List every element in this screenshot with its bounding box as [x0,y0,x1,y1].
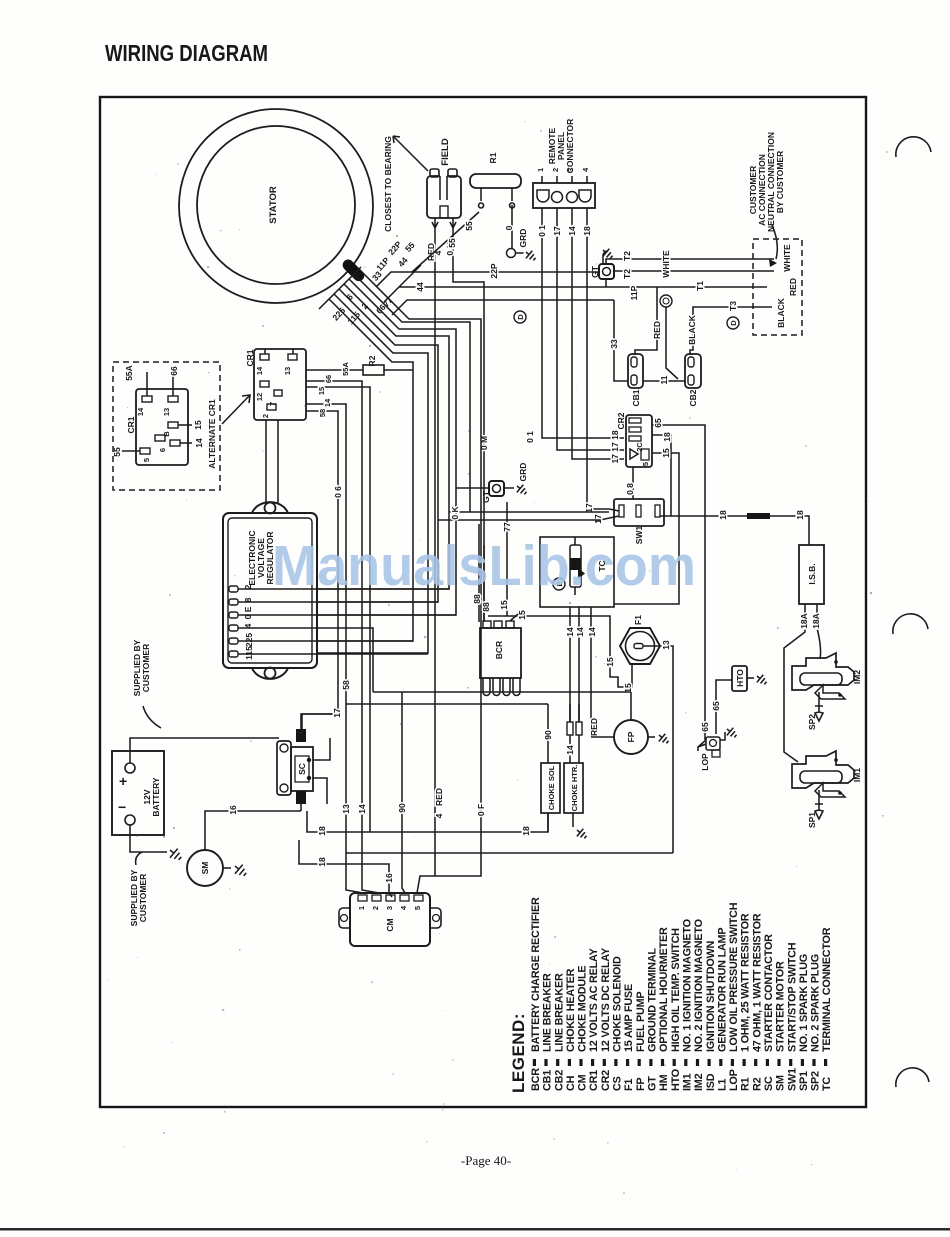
alternate CR1 dashed box [113,362,220,490]
svg-text:18: 18 [521,826,531,836]
svg-text:14: 14 [136,407,145,416]
battery box [112,751,164,835]
regulator pin 2 [229,586,238,592]
svg-text:HTO: HTO [735,669,745,687]
alternate CR1 pin B [168,422,178,428]
svg-text:0 E: 0 E [243,606,253,619]
svg-text:F1: F1 [623,1079,635,1091]
GRD terminal circle [507,249,516,258]
svg-text:65: 65 [653,418,663,428]
TC inner connector [570,545,581,587]
svg-text:18: 18 [317,857,327,867]
svg-text:CH: CH [565,1075,577,1091]
svg-text:TERMINAL CONNECTOR: TERMINAL CONNECTOR [821,927,833,1052]
stator fan wire 3 [317,279,456,615]
CR1 bottom wires [266,420,278,511]
svg-text:14: 14 [357,804,367,814]
svg-text:WIRING DIAGRAM: WIRING DIAGRAM [105,40,268,66]
stator fan wire 7 [317,299,413,641]
svg-text:SM: SM [775,1075,787,1091]
svg-text:R2: R2 [367,355,377,366]
HTO wire 65 to LOP [716,680,732,734]
svg-text:-Page 40-: -Page 40- [461,1153,511,1168]
svg-text:CB1: CB1 [542,1070,554,1091]
CR2 wire 65 right [652,425,705,740]
stator cable blob [340,257,366,283]
svg-text:1: 1 [536,168,545,172]
svg-text:14: 14 [575,627,585,637]
closest to bearing arrow [393,136,428,171]
GRD ground symbol [523,248,538,263]
wire 17 horizontal lower [438,519,600,521]
FP left wire [591,736,614,738]
svg-text:I.S.B.: I.S.B. [807,563,817,584]
svg-text:0 K: 0 K [450,506,460,520]
regulator pin 225 [229,638,238,644]
CR1 wire 58 [302,411,338,733]
svg-text:0 1: 0 1 [525,431,535,443]
CR2 wire 18 right [652,435,671,516]
svg-text:FUEL PUMP: FUEL PUMP [635,992,647,1052]
stator inner ring [197,126,355,284]
svg-text:BATTERY CHARGE RECTIFIER: BATTERY CHARGE RECTIFIER [530,897,542,1052]
svg-text:B: B [162,431,171,437]
svg-text:17: 17 [332,708,342,718]
node D circle right [727,317,739,329]
svg-text:15: 15 [661,448,671,458]
svg-text:CHOKE HEATER: CHOKE HEATER [565,968,577,1052]
svg-text:CM: CM [577,1074,589,1091]
wire 18 horizontal lower [299,840,392,897]
svg-text:R1: R1 [740,1077,752,1091]
CR1 wire 55A with resistor R2 [306,369,413,371]
svg-text:F1: F1 [633,615,643,625]
svg-text:90: 90 [543,730,553,740]
svg-text:3: 3 [566,168,575,172]
svg-text:13: 13 [283,367,292,375]
wire 15 to fuse [488,616,632,687]
svg-text:LOP: LOP [700,753,710,771]
stator outer ring [179,109,373,303]
wire BLACK down to CB2 [690,307,700,355]
svg-text:CHOKE SOL: CHOKE SOL [547,765,556,810]
svg-text:RED: RED [788,278,798,296]
SC bottom wire [300,804,302,811]
svg-text:NO. 2 SPARK PLUG: NO. 2 SPARK PLUG [810,954,822,1052]
svg-text:225: 225 [244,633,254,647]
svg-text:OPTIONAL HOURMETER: OPTIONAL HOURMETER [658,927,670,1052]
svg-text:START/STOP SWITCH: START/STOP SWITCH [786,942,798,1052]
svg-text:13: 13 [661,640,671,650]
svg-text:SC: SC [297,763,307,775]
svg-text:65: 65 [711,701,721,711]
remote connector slot 3 [567,192,578,203]
svg-text:58: 58 [318,409,327,417]
svg-text:BATTERY: BATTERY [151,777,161,817]
svg-text:2: 2 [551,168,560,172]
svg-text:SP1: SP1 [798,1071,810,1091]
node D circle left [514,311,526,323]
wire 18 horizontal upper [307,811,548,832]
CR1 wire 14 [306,404,363,893]
svg-text:HIGH OIL TEMP. SWITCH: HIGH OIL TEMP. SWITCH [670,928,682,1052]
svg-text:33: 33 [609,339,619,349]
svg-text:12 VOLTS AC RELAY: 12 VOLTS AC RELAY [588,947,600,1052]
battery negative to ground [130,825,167,852]
svg-text:BLACK: BLACK [687,314,697,345]
LOP ground [720,732,725,740]
field pin arrows [432,218,456,228]
svg-text:16: 16 [228,805,238,815]
CR2 bottom wire [632,467,634,499]
svg-text:11P: 11P [629,285,639,300]
svg-text:STARTER CONTACTOR: STARTER CONTACTOR [763,934,775,1052]
svg-text:GROUND TERMINAL: GROUND TERMINAL [647,948,659,1052]
ignition shutdown ISB box [799,545,824,604]
bottom scan edge line [0,1228,950,1231]
svg-text:18: 18 [582,226,592,236]
svg-text:TC: TC [821,1077,833,1091]
svg-text:115: 115 [244,646,254,660]
svg-text:HTO: HTO [670,1069,682,1091]
svg-text:0 6: 0 6 [333,486,343,498]
svg-text:FP: FP [626,731,636,742]
CR1 pin 2 [267,404,276,410]
svg-text:GRD: GRD [518,463,528,482]
remote connector slot 4 [579,190,591,202]
customer dashed box [753,239,802,335]
svg-text:CR1: CR1 [588,1070,600,1091]
svg-text:BY CUSTOMER: BY CUSTOMER [775,151,785,214]
svg-text:4: 4 [399,905,408,910]
svg-text:55A: 55A [341,362,350,376]
svg-text:22P: 22P [386,239,404,257]
alternate CR1 pin 5 [140,448,150,454]
svg-text:1: 1 [357,906,366,910]
svg-text:CB2: CB2 [553,1070,565,1091]
svg-text:CB2: CB2 [688,389,698,406]
svg-text:44: 44 [396,255,410,269]
SC right stubs [313,738,330,804]
choke heater splice feeds [570,704,579,722]
svg-text:90: 90 [397,803,407,813]
binder hole arc top right [896,137,931,157]
svg-text:L1: L1 [716,1079,728,1091]
svg-text:66: 66 [169,366,179,376]
svg-text:NO. 1 IGNITION MAGNETO: NO. 1 IGNITION MAGNETO [682,919,694,1052]
CR2 pin bars [629,418,641,423]
battery charge rectifier BCR [480,621,521,696]
svg-text:GRD: GRD [518,229,528,248]
CR1 pin 7 [274,390,282,396]
svg-text:1 OHM, 25 WATT RESISTOR: 1 OHM, 25 WATT RESISTOR [740,913,752,1052]
svg-text:CR2: CR2 [616,412,626,429]
svg-text:CHOKE SOLENOID: CHOKE SOLENOID [612,956,624,1052]
svg-text:GT: GT [647,1076,659,1091]
alternate CR1 pin 55 stub [122,450,140,452]
low oil pressure switch LOP [698,737,720,757]
svg-text:8: 8 [243,597,253,602]
choke heater ground [572,813,574,827]
CR2 wire 15 right [614,453,679,604]
svg-text:LOW OIL PRESSURE SWITCH: LOW OIL PRESSURE SWITCH [728,902,740,1052]
svg-text:NO. 1 SPARK PLUG: NO. 1 SPARK PLUG [798,954,810,1052]
alternate CR1 pin 6 [155,435,165,441]
svg-text:14: 14 [567,226,577,236]
GT upper ground stub [603,251,608,287]
SW1 pin bars [619,505,624,517]
fan branch 33 11P [392,300,614,315]
svg-text:18: 18 [718,510,728,520]
circuit breaker CB1 [628,354,643,388]
svg-text:RED: RED [652,321,662,339]
svg-text:SP2: SP2 [810,1071,822,1091]
wire 90 to choke solenoid [547,704,549,763]
svg-text:0 1: 0 1 [537,225,547,237]
svg-text:GENERATOR RUN LAMP: GENERATOR RUN LAMP [716,928,728,1052]
CR1 wire 66 [306,381,379,893]
svg-text:ISD: ISD [705,1073,717,1091]
svg-text:13: 13 [341,804,351,814]
svg-text:5: 5 [641,462,650,466]
svg-text:17: 17 [552,226,562,236]
svg-text:SP1: SP1 [807,812,817,828]
ignition magneto IM1 [792,751,854,797]
svg-text:18: 18 [795,510,805,520]
svg-text:14: 14 [565,627,575,637]
svg-text:BCR: BCR [530,1068,542,1091]
svg-text:12: 12 [255,393,264,401]
CR1 pin 12 [260,381,269,387]
svg-text:14: 14 [194,438,204,448]
TC arrow [578,568,585,579]
svg-text:FP: FP [635,1078,647,1091]
svg-text:CHOKE HTR.: CHOKE HTR. [570,765,579,812]
svg-text:IM1: IM1 [682,1073,694,1091]
svg-text:IGNITION SHUTDOWN: IGNITION SHUTDOWN [705,940,717,1052]
svg-text:BCR: BCR [494,641,504,659]
terminal connector TC box [540,537,614,607]
svg-text:BLACK: BLACK [776,297,786,328]
svg-text:17 17 18: 17 17 18 [610,430,620,463]
svg-text:SC: SC [763,1076,775,1091]
svg-text:FIELD: FIELD [440,138,451,166]
svg-text:HM: HM [658,1074,670,1091]
wire T3 [700,306,772,308]
relay CR2 [626,415,652,467]
ignition magneto IM2 [792,653,854,699]
svg-text:15: 15 [499,600,509,610]
circuit breaker CB2 [685,354,701,388]
svg-text:115: 115 [345,309,362,326]
svg-text:SM: SM [200,862,210,875]
CR1 wire 15 [306,387,370,832]
svg-text:66: 66 [324,375,333,383]
svg-text:CLOSEST TO BEARING: CLOSEST TO BEARING [383,136,393,232]
regulator pin 115 [229,651,238,657]
binder hole arc bottom right [896,1068,929,1087]
ISB bottom wires 18A [784,604,821,762]
voltage regulator body [223,502,317,679]
node B drop wire to CB2 [666,307,678,379]
svg-text:NO. 2 IGNITION MAGNETO: NO. 2 IGNITION MAGNETO [693,919,705,1052]
svg-text:55: 55 [112,447,122,457]
svg-text:WHITE: WHITE [782,244,792,272]
bus wire lower [346,703,548,705]
svg-text:LINE BREAKER: LINE BREAKER [542,973,554,1052]
svg-text:15: 15 [317,387,326,395]
svg-text:STARTER MOTOR: STARTER MOTOR [775,961,787,1052]
svg-text:22P: 22P [489,263,499,278]
svg-text:5: 5 [142,458,151,462]
remote pin wires down [542,208,624,438]
svg-text:CM: CM [385,918,395,931]
BCR feeds [479,524,484,622]
field red wire [434,228,436,876]
starter motor SM [187,850,223,886]
choke heater CH [564,763,583,813]
resistor R1 [470,174,521,188]
svg-text:77: 77 [502,522,512,532]
svg-text:T1: T1 [695,281,705,291]
wire 17 SC top [301,714,338,733]
svg-text:11: 11 [659,375,669,384]
svg-text:14: 14 [565,745,575,755]
svg-text:88: 88 [481,602,491,612]
svg-text:LINE BREAKER: LINE BREAKER [553,973,565,1052]
wire T1 [657,286,767,288]
svg-text:RED: RED [434,788,444,806]
svg-text:SW1: SW1 [786,1068,798,1091]
svg-text:47 OHM, 1 WATT RESISTOR: 47 OHM, 1 WATT RESISTOR [751,913,763,1052]
CR1 pin 14 [260,354,269,360]
svg-text:17: 17 [593,514,603,524]
R1 right pin wire [510,188,515,248]
CR1 pin 13 [288,354,297,360]
svg-text:R1: R1 [488,152,498,163]
wire 90 to choke module [402,692,405,893]
svg-text:6: 6 [158,448,167,452]
choke sol bottom junction [547,813,549,832]
CR2 coil triangle [630,449,638,459]
svg-text:T2: T2 [622,251,632,261]
stator fan wire 1 [359,269,481,893]
svg-text:IM2: IM2 [852,670,862,684]
svg-text:IM2: IM2 [693,1073,705,1091]
svg-text:ALTERNATE CR1: ALTERNATE CR1 [207,399,217,469]
svg-text:15: 15 [517,610,527,620]
svg-text:14: 14 [255,366,264,375]
svg-text:65: 65 [700,722,710,732]
alternate CR1 relay body [136,389,188,465]
svg-text:15 AMP FUSE: 15 AMP FUSE [623,984,635,1052]
alternate CR1 arrow to CR1 [222,395,250,424]
svg-text:CHOKE MODULE: CHOKE MODULE [577,966,589,1052]
svg-text:SP2: SP2 [807,714,817,730]
svg-text:18A: 18A [799,613,809,629]
relay CR1 [254,349,306,420]
fuel pump FP [614,720,648,754]
wire 17 horizontal upper [449,511,609,513]
svg-text:CS: CS [612,1076,624,1091]
wire RED down to CB1 [635,287,657,355]
wire 33 drop to CB1 [614,300,628,381]
starter contactor SC [277,729,313,804]
spark plug SP2 [815,692,823,721]
svg-text:2: 2 [261,414,270,418]
svg-text:−: − [118,799,126,815]
BCR pin3 diagonal 15 [510,614,518,621]
wire T2 white pair to customer box [606,259,774,271]
svg-text:3: 3 [385,906,394,910]
svg-text:RED: RED [589,718,599,736]
fuse F1 [620,628,660,664]
stator fan wire 4 [317,284,449,589]
remote panel connector box [533,183,595,208]
svg-text:LOP: LOP [728,1069,740,1091]
R1 left pin wire [412,188,484,272]
svg-text:CR2: CR2 [600,1070,612,1091]
svg-text:CB1: CB1 [631,389,641,406]
svg-text:0 8: 0 8 [625,483,635,495]
spark plug SP1 [815,790,823,819]
svg-text:14: 14 [587,627,597,637]
svg-text:CONNECTOR: CONNECTOR [565,119,575,174]
SW1 feeder diagonals [600,509,619,520]
regulator pin 0E [229,612,238,618]
alternate CR1 pin 13 [168,396,178,402]
ground terminal GT mid [489,481,504,496]
field 0N wire [453,228,484,622]
svg-text:WHITE: WHITE [661,250,671,278]
ground terminal GT upper [599,264,614,279]
svg-text:0: 0 [504,225,514,230]
wire 18 SW1 to ISB [660,516,809,545]
TC bottom wires 14 [570,607,591,763]
svg-text:4: 4 [243,623,253,628]
node E circle [553,578,565,590]
stator fan wire 5 [317,289,438,602]
stator fan wire 2 [354,274,470,512]
customer pointer line [772,225,777,259]
choke wire splices [567,722,573,735]
svg-text:IM1: IM1 [852,768,862,782]
svg-text:14: 14 [323,398,332,407]
svg-text:R2: R2 [751,1077,763,1091]
F1 right wire 13 [643,646,673,853]
svg-text:GT: GT [481,490,491,503]
svg-text:15: 15 [605,657,615,667]
bus wire upper [373,692,631,720]
remote connector slot 1 [537,190,549,202]
high temp switch HTO [732,666,747,691]
node B circle [660,295,672,307]
svg-text:2C: 2C [635,442,644,452]
CR1 top pin stubs [265,349,293,354]
wire 11 between breakers [643,380,685,382]
regulator pin 8 [229,599,238,605]
stator fan comb line [319,267,361,309]
svg-text:55: 55 [447,238,457,248]
fan branch 22P to GT [376,272,599,287]
wire 77 vertical [506,502,508,616]
border frame [100,97,866,1107]
svg-text:55: 55 [403,240,417,254]
svg-text:13: 13 [162,408,171,416]
svg-text:CR1: CR1 [245,349,255,366]
svg-text:5: 5 [413,906,422,910]
svg-text:D: D [729,320,738,326]
